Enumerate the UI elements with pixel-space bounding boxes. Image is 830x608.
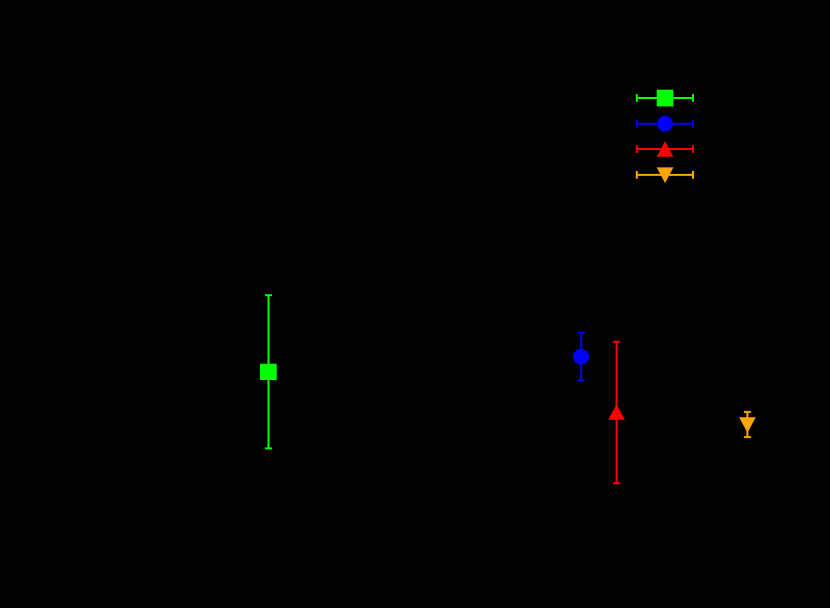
cap right [692, 94, 694, 102]
series 3 red triangle-up errorbar [613, 342, 620, 484]
cap bottom [578, 380, 585, 382]
legend marker blue circle [657, 116, 673, 132]
cap left [636, 171, 638, 179]
legend entry 1 green [637, 94, 693, 102]
legend entry 2 blue [637, 120, 693, 128]
series 1 green square errorbar [265, 295, 272, 448]
cap right [692, 171, 694, 179]
cap bottom [744, 436, 751, 438]
cap top [744, 411, 751, 413]
wire [637, 123, 693, 125]
wire [637, 148, 693, 150]
cap right [692, 120, 694, 128]
series 4 orange triangle-down errorbar [744, 412, 751, 437]
cap left [636, 94, 638, 102]
wire [268, 295, 270, 448]
cap right [692, 145, 694, 153]
marker orange triangle-down [739, 417, 756, 433]
cap bottom [613, 482, 620, 484]
legend entry 4 orange [637, 171, 693, 179]
legend marker orange triangle-down [657, 167, 674, 183]
marker red triangle-up [608, 404, 625, 419]
wire [616, 342, 618, 484]
cap left [636, 120, 638, 128]
wire [746, 412, 748, 437]
legend marker green square [657, 90, 674, 107]
legend entry 3 red [637, 145, 693, 153]
cap bottom [265, 447, 272, 449]
series 2 blue circle errorbar [578, 333, 585, 381]
wire [637, 97, 693, 99]
cap top [265, 294, 272, 296]
marker blue circle [573, 349, 589, 365]
cap left [636, 145, 638, 153]
wire [637, 174, 693, 176]
wire [580, 333, 582, 381]
cap top [613, 341, 620, 343]
cap top [578, 332, 585, 334]
marker green square [260, 364, 277, 380]
legend marker red triangle-up [657, 141, 674, 157]
